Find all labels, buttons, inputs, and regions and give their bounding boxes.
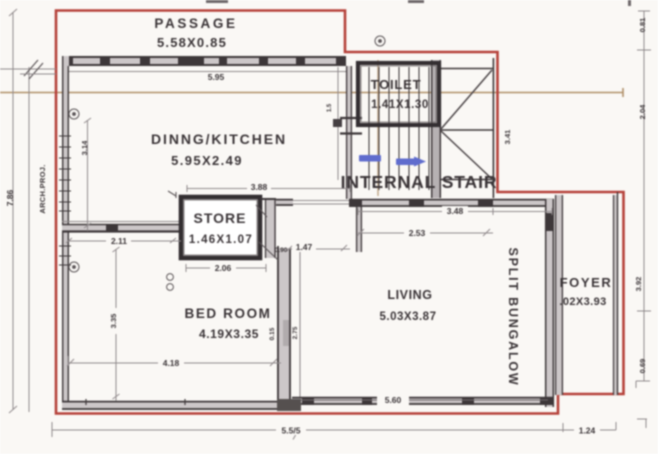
svg-text:3.88: 3.88 (251, 182, 268, 192)
wall: bedroom bottom (62, 399, 301, 411)
wall: living right (545, 199, 554, 407)
dimension: bottom line (52, 419, 647, 440)
wall: dining right / stair left (340, 66, 362, 199)
svg-text:3.92: 3.92 (634, 277, 643, 292)
door swing bedroom (259, 242, 278, 260)
dimension: 2.53 living (357, 229, 493, 236)
svg-text:5.5/5: 5.5/5 (282, 426, 301, 436)
svg-text:1.47: 1.47 (296, 242, 313, 252)
wall: foyer right (613, 192, 618, 395)
svg-text:BED ROOM: BED ROOM (184, 306, 271, 321)
svg-text:ARCH.PROJ.: ARCH.PROJ. (38, 164, 47, 213)
svg-text:0.90: 0.90 (275, 247, 288, 254)
svg-text:FOYER: FOYER (560, 275, 613, 290)
stair diagonals (441, 70, 492, 179)
svg-text:3.48: 3.48 (447, 206, 464, 216)
window ticks dining (59, 136, 71, 211)
toilet walls (358, 63, 439, 125)
svg-text:7.86: 7.86 (5, 189, 15, 206)
svg-text:0.69: 0.69 (638, 359, 647, 374)
svg-text:DINNG/KITCHEN: DINNG/KITCHEN (151, 131, 287, 147)
svg-text:INTERNAL STAIR: INTERNAL STAIR (341, 172, 498, 192)
dimension: bedroom vertical 3.35 (113, 247, 120, 401)
svg-text:STORE: STORE (194, 210, 247, 226)
svg-text:0.81: 0.81 (638, 18, 647, 33)
grid circle markers (69, 36, 385, 290)
stair treads (369, 67, 429, 190)
window ticks bedroom (59, 246, 71, 265)
svg-text:1.41X1.30: 1.41X1.30 (371, 99, 429, 111)
wall: passage bottom window wall (62, 56, 346, 72)
section line (tan vertical in stair) (377, 60, 379, 196)
svg-text:5.60: 5.60 (385, 395, 402, 405)
dimension: 2.11 bedroom top (66, 238, 181, 243)
wall: building left wall (59, 56, 71, 410)
svg-text:5.03X3.87: 5.03X3.87 (380, 311, 437, 323)
svg-text:1.5: 1.5 (327, 103, 333, 112)
svg-text:2.53: 2.53 (409, 228, 426, 238)
svg-text:2.75: 2.75 (292, 326, 299, 339)
break mark top-left (24, 60, 43, 79)
svg-text:4.18: 4.18 (163, 358, 180, 368)
dimension: 3.48 living top (358, 208, 552, 215)
top edge cut text fragments (206, 0, 631, 6)
dimension: 1.47 right of store (287, 245, 350, 251)
store room walls (181, 197, 260, 258)
dimension: right column (636, 11, 651, 388)
svg-text:1.24: 1.24 (579, 426, 596, 436)
dimension: dining vertical 3.14 (84, 118, 91, 231)
wall: store-to-divider piece + door threshold (276, 199, 357, 206)
wall: living bottom window wall (292, 394, 554, 405)
small tick near store top-left (168, 191, 176, 198)
blue stair arrows (359, 155, 426, 167)
stair mid wall column (431, 60, 441, 198)
svg-text:.02X3.93: .02X3.93 (559, 296, 606, 308)
svg-text:TOILET: TOILET (371, 77, 422, 92)
wall: stub below stair in living (356, 207, 362, 252)
section line (tan horizontal) (0, 88, 623, 97)
wall: living top window wall (349, 199, 554, 207)
svg-text:3.14: 3.14 (80, 140, 89, 155)
svg-text:5.95X2.49: 5.95X2.49 (171, 153, 243, 168)
wall: stub right of store (260, 198, 276, 258)
svg-text:5.58X0.85: 5.58X0.85 (157, 35, 227, 50)
wall: bedroom/living divider (259, 242, 300, 408)
landing walls to toilet (340, 117, 362, 119)
dimension: 2.06 under store (186, 264, 266, 272)
extra extension line top-left (20, 73, 56, 75)
svg-text:0.15: 0.15 (269, 327, 276, 340)
svg-text:PASSAGE: PASSAGE (154, 16, 237, 31)
svg-text:SPLIT BUNGALOW: SPLIT BUNGALOW (506, 247, 520, 386)
door swing store stub (256, 205, 267, 217)
dimension: left vertical 7.86 (0, 9, 56, 413)
svg-text:2.04: 2.04 (638, 104, 647, 119)
svg-text:1.46X1.07: 1.46X1.07 (189, 234, 253, 246)
red plot boundary (56, 11, 624, 414)
svg-text:3.35: 3.35 (109, 314, 118, 329)
svg-text:2.11: 2.11 (111, 236, 127, 246)
dimension: 3.88 above store (187, 185, 350, 192)
svg-text:4.19X3.35: 4.19X3.35 (199, 327, 259, 341)
svg-text:5.95: 5.95 (208, 72, 225, 82)
dimension: door on stair-left wall (327, 67, 342, 180)
dim 5.60 on wall (377, 394, 409, 405)
wall: dining/bedroom divider (left part) (62, 222, 181, 233)
svg-text:LIVING: LIVING (387, 288, 432, 302)
svg-text:3.41: 3.41 (503, 130, 512, 145)
wall: foyer left (555, 195, 563, 395)
svg-text:2.06: 2.06 (215, 263, 232, 273)
dimension: 4.18 bedroom (67, 356, 281, 366)
stair right flight outline (441, 58, 494, 198)
